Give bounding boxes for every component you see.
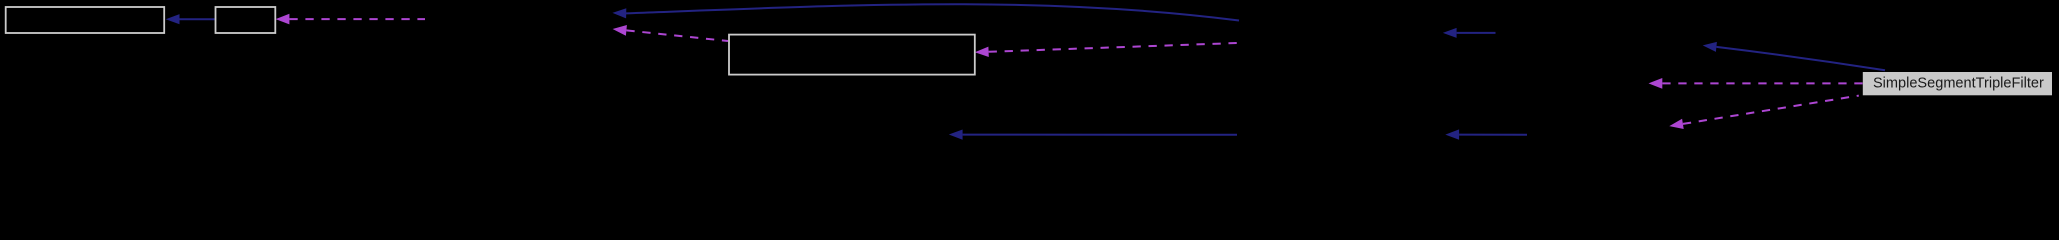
edge: dashed arrow from node C to hidden node (upper left of C) <box>613 25 728 41</box>
edge: dashed arrow from SimpleSegmentTripleFilter going left <box>1649 78 1863 89</box>
edge: short solid arrow bottom right of center <box>1445 129 1527 139</box>
edge: long curved solid arrow to hidden node (top center) <box>612 4 1239 20</box>
svg-text:SimpleSegmentTripleFilter: SimpleSegmentTripleFilter <box>1873 76 2044 92</box>
edge: dashed arrow into right side of node C from hidden node <box>975 43 1237 57</box>
node B: small empty box <box>216 7 276 33</box>
edge: long solid arrow bottom center <box>949 130 1237 140</box>
edge: solid arrow between hidden nodes (mid upper) <box>1443 28 1496 38</box>
edge: solid arrow from node B to node A <box>166 14 215 24</box>
edge: dashed arrow into node B from hidden node <box>276 14 425 25</box>
edge: dashed arrow from SimpleSegmentTripleFilter going lower-left <box>1669 96 1859 129</box>
node D: SimpleSegmentTripleFilter (highlighted) <box>1863 72 2052 95</box>
node C: wide empty box center <box>729 35 975 75</box>
node A: empty box top left <box>6 7 165 33</box>
edge: solid arrow from SimpleSegmentTripleFilter to hidden node upper-left <box>1703 42 1885 70</box>
